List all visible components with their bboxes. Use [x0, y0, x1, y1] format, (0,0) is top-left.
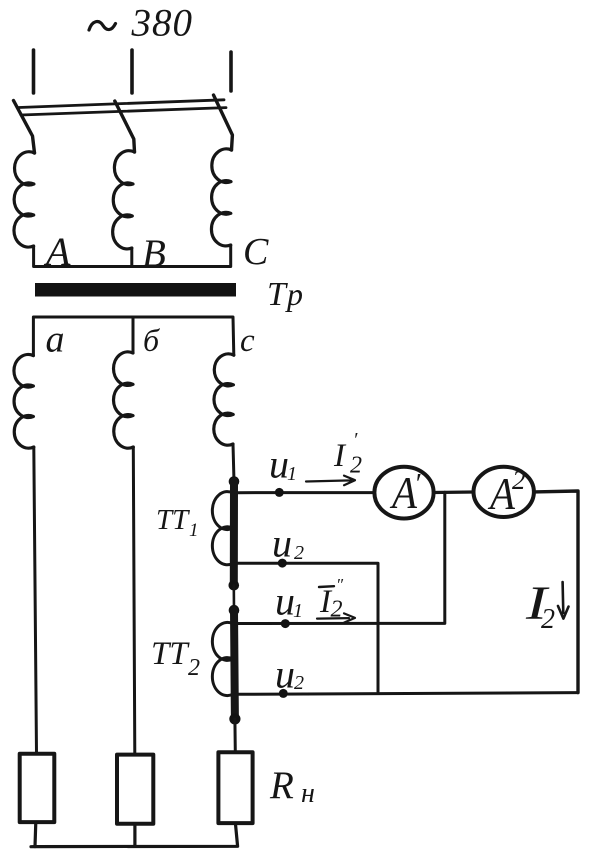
TT primary bar 2: [230, 610, 239, 719]
load resistor R2: [117, 755, 153, 824]
svg-text:I: I: [333, 438, 347, 474]
wire secondary top bus: [33, 317, 233, 356]
label Rn: [269, 764, 315, 809]
primary winding A: [14, 152, 35, 247]
wire to load resistor: [233, 719, 236, 752]
node TT2 top: [229, 605, 240, 616]
ammeter A': [374, 467, 433, 519]
svg-text:c: c: [240, 323, 255, 359]
svg-text:TT: TT: [151, 636, 190, 672]
switch blade phase B: [115, 101, 135, 152]
svg-text:1: 1: [189, 520, 199, 541]
svg-text:2: 2: [350, 453, 362, 479]
load resistor R3: [218, 752, 252, 823]
wire tap I2 of TT2 bottom bus: [236, 693, 578, 695]
svg-text:′: ′: [414, 468, 421, 500]
label U2: [272, 521, 304, 566]
TT primary bar 1: [230, 482, 238, 586]
TT2 secondary winding: [212, 622, 233, 695]
svg-text:380: 380: [131, 2, 194, 45]
svg-text:C: C: [243, 231, 269, 273]
node tap U1 lower: [281, 619, 290, 628]
wire tap I1 of TT2 to ammeter junction: [236, 492, 445, 623]
label ~ 380 supply voltage: [89, 2, 193, 45]
arrow down I2: [558, 582, 569, 619]
label TT2: [151, 636, 200, 681]
switch bus double line: [19, 100, 224, 108]
secondary winding b: [114, 352, 134, 448]
node top of TT1: [229, 476, 240, 487]
node TT2 bottom: [229, 713, 240, 724]
wire between ammeters: [434, 490, 474, 494]
svg-text:TT: TT: [156, 504, 190, 536]
label I2 with down arrow: [525, 577, 555, 635]
svg-text:1: 1: [293, 600, 303, 622]
node tap U1: [275, 488, 284, 497]
wire phase b down: [133, 447, 135, 755]
wire primary bottom bus: [34, 245, 231, 267]
label U1 lower: [275, 579, 303, 624]
wire supply stub phase C: [229, 52, 233, 91]
svg-text:″: ″: [336, 575, 344, 594]
secondary winding a: [14, 355, 34, 449]
node tap U2: [278, 559, 287, 568]
svg-text:B: B: [142, 232, 166, 275]
svg-text:T: T: [267, 276, 288, 313]
load resistor R1: [20, 754, 55, 822]
transformer core TP: [35, 283, 236, 297]
arrow I2'': [317, 613, 355, 622]
svg-text:u: u: [275, 652, 295, 697]
label I2': [333, 429, 362, 479]
primary winding B: [113, 151, 135, 249]
label I2'' with overbar: [319, 575, 344, 623]
wire tap I2 of TT1 down to bottom bus: [236, 563, 378, 692]
primary winding C: [211, 149, 231, 246]
wire phase c to TT: [233, 444, 234, 482]
label U1 top: [269, 442, 297, 487]
svg-text:1: 1: [287, 463, 297, 485]
label TT1: [156, 504, 199, 541]
switch blade phase A: [14, 101, 35, 154]
svg-text:2: 2: [294, 542, 304, 564]
wire tap I1 of TT1 to ammeter: [236, 491, 374, 494]
node TT1 bottom: [229, 580, 240, 591]
svg-text:2: 2: [512, 465, 526, 495]
svg-text:2: 2: [541, 604, 555, 635]
label Tp: [267, 276, 303, 313]
svg-text:R: R: [269, 764, 294, 807]
svg-text:2: 2: [294, 672, 304, 694]
TT1 secondary winding: [212, 492, 233, 565]
svg-text:u: u: [269, 442, 289, 487]
node tap U2 lower: [279, 689, 288, 698]
wire supply stub phase B: [130, 50, 134, 93]
arrow I2': [306, 476, 355, 486]
svg-text:u: u: [275, 579, 295, 624]
switch blade phase C: [214, 95, 233, 150]
svg-text:p: p: [285, 276, 303, 312]
ammeter A2: [474, 467, 534, 517]
secondary winding c: [214, 354, 234, 445]
svg-text:a: a: [46, 319, 65, 361]
wire phase a down: [34, 447, 37, 754]
svg-text:б: б: [143, 322, 160, 358]
wire between TT bars: [233, 585, 236, 610]
svg-text:2: 2: [188, 655, 200, 681]
wire bottom bus: [35, 822, 238, 847]
wire supply stub phase A: [32, 50, 36, 93]
svg-text:u: u: [272, 521, 292, 566]
wire ammeter A2 output to right and down: [534, 491, 578, 693]
svg-text:′: ′: [353, 429, 358, 451]
label U2 lower: [275, 652, 304, 697]
svg-text:н: н: [301, 778, 315, 809]
